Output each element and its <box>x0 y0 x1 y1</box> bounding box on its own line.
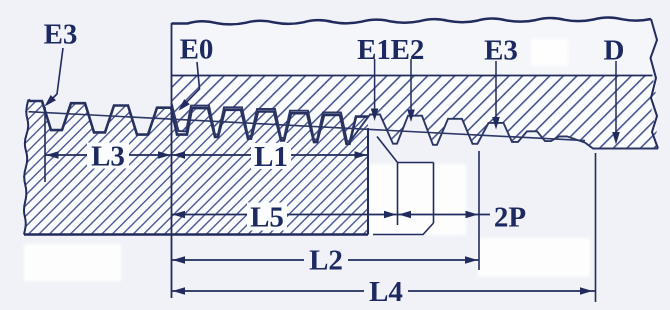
svg-text:E3: E3 <box>484 35 518 67</box>
svg-text:L5: L5 <box>250 202 284 234</box>
svg-text:2P: 2P <box>494 202 526 234</box>
svg-text:D: D <box>604 35 625 67</box>
svg-text:E1: E1 <box>357 34 391 66</box>
svg-text:E0: E0 <box>180 34 214 66</box>
svg-text:L4: L4 <box>369 276 403 308</box>
svg-text:E3: E3 <box>44 19 78 51</box>
svg-text:L1: L1 <box>254 141 288 173</box>
svg-text:L2: L2 <box>309 245 343 277</box>
svg-text:L3: L3 <box>91 141 125 173</box>
svg-text:E2: E2 <box>391 34 425 66</box>
